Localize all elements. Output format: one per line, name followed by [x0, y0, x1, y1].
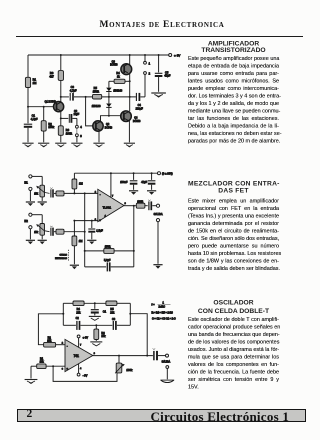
terminal 2 salida osc	[166, 366, 169, 380]
transistor Q3	[110, 60, 132, 74]
svg-text:Q1 BC548: Q1 BC548	[45, 100, 57, 103]
terminal +6V	[169, 53, 181, 57]
terminal salida osc	[162, 354, 171, 363]
ground salida osc	[160, 380, 174, 382]
svg-text:+ 9V: + 9V	[83, 336, 89, 340]
terminal E2 bottom	[24, 219, 32, 239]
wire top branch middle	[84, 302, 106, 304]
terminal 1	[144, 55, 151, 65]
transistor Q4	[121, 111, 141, 123]
potentiometer P2	[34, 215, 44, 240]
svg-text:1N4148: 1N4148	[113, 90, 122, 93]
wire divider to trimpot	[53, 366, 117, 381]
ground 100nF	[129, 191, 138, 195]
wire Q1 emitter node	[60, 111, 62, 125]
diode D2 1N4148	[92, 97, 112, 116]
svg-text:- 9V: - 9V	[83, 373, 88, 377]
resistor R1 mixer	[54, 191, 64, 196]
ground P1	[38, 202, 47, 206]
formula f=1/2piRC	[152, 301, 176, 320]
resistor 100R output	[136, 200, 147, 208]
capacitor C1	[24, 114, 38, 143]
capacitor C2 mixer	[44, 226, 53, 236]
wire Q2 base from C3 node	[86, 97, 93, 126]
wire right vertical collector rail	[129, 55, 131, 111]
capacitor C1 mixer	[44, 188, 53, 198]
diode D1 1N4148	[106, 81, 123, 97]
resistor feedback 1M	[72, 173, 83, 193]
capacitor C1 osc	[91, 303, 107, 315]
svg-text:2: 2	[149, 72, 151, 76]
wire feedback loop right	[133, 206, 135, 267]
terminal +9V	[77, 335, 88, 347]
svg-text:SALIDA: SALIDA	[154, 213, 163, 216]
svg-text:3: 3	[80, 134, 82, 138]
svg-text:150k: 150k	[48, 125, 54, 129]
potentiometer P1	[34, 176, 44, 201]
ground salida	[153, 265, 162, 269]
node Q2 base branch	[85, 96, 87, 98]
terminal E2 top	[29, 213, 42, 216]
svg-text:C1: C1	[103, 309, 107, 313]
wire noninverting input	[73, 220, 97, 222]
wire summing node	[64, 192, 98, 194]
svg-text:100k: 100k	[126, 368, 132, 372]
terminal salida ground side	[156, 219, 159, 264]
ground under Q4	[124, 143, 135, 147]
wire Q4 emitter	[128, 121, 130, 143]
svg-text:-: -	[67, 344, 68, 348]
capacitor output mixer	[148, 200, 156, 211]
svg-text:OTRAS: OTRAS	[59, 253, 67, 256]
svg-text:7: 7	[80, 345, 82, 347]
svg-text:10k: 10k	[40, 361, 45, 364]
wire collector line with C3 R5	[61, 96, 69, 98]
svg-text:C3: C3	[112, 318, 116, 321]
ground under R2	[38, 143, 49, 147]
resistor 150k feedback	[85, 244, 134, 253]
ground under terminal 3	[71, 143, 82, 147]
svg-text:4k7: 4k7	[49, 74, 54, 78]
wire node B to output	[130, 314, 147, 356]
wire E2 to summing node	[84, 193, 86, 267]
svg-text:6: 6	[125, 203, 127, 205]
ground under Q2	[93, 143, 104, 147]
svg-text:C = C2 = C3 C1 = 2·C: C = C2 = C3 C1 = 2·C	[152, 318, 176, 321]
svg-text:22k: 22k	[76, 311, 81, 314]
node diode junction	[108, 96, 110, 98]
transistor Q2	[93, 121, 113, 131]
svg-text:10k: 10k	[34, 194, 39, 196]
svg-text:BC558: BC558	[110, 64, 118, 67]
ground 1M	[70, 265, 79, 269]
svg-text:+ 6V: + 6V	[174, 53, 180, 57]
ground R1 osc	[30, 366, 32, 378]
capacitor C4	[136, 93, 145, 111]
capacitor C3 osc	[112, 318, 130, 330]
svg-text:BC548: BC548	[105, 126, 113, 129]
wire Q1 base	[28, 106, 54, 108]
svg-text:22k: 22k	[110, 311, 115, 314]
dashed otras entradas indicator	[55, 250, 69, 262]
wire bottom branch middle	[81, 324, 113, 326]
wire supply rail	[74, 172, 157, 174]
svg-text:5,6µF: 5,6µF	[104, 259, 111, 262]
svg-text:100R: 100R	[137, 200, 143, 203]
ground under R6	[90, 342, 102, 346]
terminal E1 top	[29, 175, 42, 178]
wire left vertical R1 branch	[27, 55, 29, 123]
svg-text:1: 1	[163, 301, 165, 304]
trimpot 100k	[115, 356, 133, 374]
capacitor 100nF	[120, 173, 137, 190]
capacitor C2	[61, 110, 80, 123]
svg-text:6: 6	[94, 353, 96, 355]
node Q1 collector	[60, 96, 62, 98]
resistor R1 osc	[31, 358, 65, 369]
svg-text:4,7µF: 4,7µF	[31, 117, 38, 121]
resistor R2 mixer	[54, 229, 85, 234]
wire Q2 emitter	[98, 131, 100, 142]
svg-text:7: 7	[112, 196, 114, 198]
capacitor 1.5uF	[88, 221, 103, 240]
svg-text:22µF: 22µF	[74, 113, 80, 116]
svg-text:ENTRADAS: ENTRADAS	[55, 257, 67, 260]
wire top supply rail +6V	[28, 54, 169, 56]
svg-text:4: 4	[80, 125, 82, 129]
capacitor C3	[70, 85, 93, 100]
svg-text:(9 a 30V): (9 a 30V)	[162, 171, 173, 175]
ground 47uF	[147, 191, 156, 195]
svg-text:1M: 1M	[79, 181, 83, 185]
ground under C1	[22, 143, 33, 147]
svg-text:2: 2	[62, 342, 64, 344]
footer bar	[17, 409, 306, 422]
svg-text:E1: E1	[24, 181, 28, 185]
resistor R4 osc	[63, 301, 84, 314]
svg-text:1M: 1M	[33, 81, 37, 85]
capacitor 47uF supply	[141, 173, 155, 190]
svg-text:150k: 150k	[105, 244, 111, 248]
svg-text:741: 741	[74, 354, 80, 358]
svg-text:C2: C2	[76, 317, 80, 320]
wire output node	[124, 205, 136, 207]
resistor R5	[93, 86, 136, 99]
terminal salida	[154, 204, 163, 216]
resistor R2 osc	[44, 337, 65, 348]
ground E2	[26, 240, 35, 244]
svg-text:220µF: 220µF	[136, 107, 144, 110]
terminal 4	[76, 118, 83, 129]
node R2 top	[43, 106, 45, 108]
capacitor output osc	[153, 348, 166, 360]
wire V+ pin	[110, 173, 112, 197]
svg-text:10k: 10k	[101, 335, 106, 338]
svg-text:1: 1	[149, 61, 151, 65]
svg-text:BC558: BC558	[133, 120, 141, 123]
terminal E1 bottom	[24, 181, 32, 201]
ground P2	[38, 240, 47, 244]
text column 1	[188, 40, 279, 145]
resistor R2	[41, 107, 55, 143]
svg-text:100nF: 100nF	[120, 181, 128, 184]
ground under R6	[55, 143, 66, 147]
resistor R3	[49, 55, 63, 102]
resistor 1M to ground	[72, 221, 82, 265]
terminal 3	[76, 128, 83, 142]
wire node A vertical	[62, 303, 64, 325]
capacitor 5.6uF feedback	[85, 259, 134, 271]
capacitor C5	[155, 55, 171, 92]
svg-text:4,7µF: 4,7µF	[70, 88, 77, 92]
svg-text:E2: E2	[24, 219, 28, 223]
wire output osc	[93, 355, 153, 357]
svg-text:1k: 1k	[117, 75, 120, 78]
text column 3	[188, 298, 279, 391]
svg-text:R = R4 = R5 = 2·R6: R = R4 = R5 = 2·R6	[152, 311, 174, 314]
ground under C5	[151, 93, 166, 97]
wire node B vertical	[129, 303, 131, 325]
svg-text:10k: 10k	[34, 232, 39, 234]
svg-text:4: 4	[80, 368, 82, 370]
op-amp U2 741	[62, 339, 96, 371]
svg-text:3: 3	[62, 368, 64, 370]
terminal +9 a 30V	[158, 171, 173, 175]
svg-text:47µF: 47µF	[141, 181, 147, 184]
ground E1	[26, 202, 35, 206]
terminal 2	[144, 72, 151, 97]
svg-text:SALIDA: SALIDA	[162, 360, 171, 363]
transistor Q1	[45, 100, 64, 111]
resistor R6	[58, 126, 72, 143]
ground under C1 osc	[89, 316, 101, 320]
op-amp U1 TL081	[95, 189, 127, 222]
resistor R5 osc	[106, 301, 130, 314]
wire Q2 collector to Q4 base	[101, 115, 121, 122]
svg-text:1N4148: 1N4148	[92, 105, 101, 108]
svg-text:150R: 150R	[93, 89, 99, 93]
ground 1.5uF	[87, 240, 96, 244]
svg-text:1,5µF: 1,5µF	[96, 229, 103, 232]
text column 2	[188, 180, 279, 272]
svg-text:47µF: 47µF	[164, 74, 170, 78]
resistor R1	[25, 77, 37, 87]
terminal -9V	[77, 364, 87, 378]
svg-text:1M: 1M	[79, 239, 83, 243]
svg-text:TL081: TL081	[103, 206, 112, 210]
node C4 left	[129, 96, 131, 98]
svg-text:100R: 100R	[66, 131, 72, 135]
svg-text:-: -	[100, 192, 101, 196]
resistor R6 osc	[94, 325, 106, 341]
svg-text:f =: f =	[152, 302, 155, 306]
capacitor C2 osc	[63, 317, 79, 330]
wire node A to inverting input	[38, 314, 63, 345]
resistor R4	[109, 72, 130, 83]
svg-text:2πRC: 2πRC	[159, 306, 166, 309]
